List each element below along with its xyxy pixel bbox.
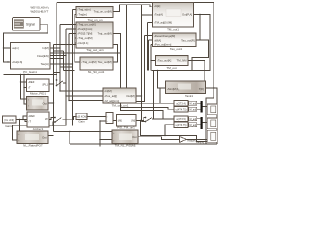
svg-text:TM_out1: TM_out1 xyxy=(167,28,179,32)
svg-text:›: › xyxy=(18,138,19,142)
svg-text:Rad[M]: Rad[M] xyxy=(196,141,204,144)
svg-text:TM_out: TM_out xyxy=(166,66,176,70)
svg-text:Traj_un_un[M]: Traj_un_un[M] xyxy=(94,10,112,14)
svg-text:Tau_out1: Tau_out1 xyxy=(170,47,183,51)
svg-text:Traj_un_un: Traj_un_un xyxy=(87,18,102,22)
svg-text:Gain: Gain xyxy=(78,120,85,124)
svg-text:Out: Out xyxy=(42,136,47,140)
svg-text:›Pos[1][m/s]: ›Pos[1][m/s] xyxy=(77,27,92,31)
svg-text:M_adj: M_adj xyxy=(190,125,197,127)
svg-text:Tau[A]: Tau[A] xyxy=(41,62,49,66)
svg-text:Rad[M]: Rad[M] xyxy=(188,139,196,142)
svg-text:Out: Out xyxy=(42,101,47,105)
svg-text:M_adj: M_adj xyxy=(190,109,197,111)
svg-text:›: › xyxy=(28,104,29,108)
svg-text:TM_out_un1: TM_out_un1 xyxy=(112,104,129,108)
svg-text:›REF: ›REF xyxy=(28,80,35,84)
svg-text:›: › xyxy=(113,131,114,135)
svg-text:›In[M]: ›In[M] xyxy=(104,89,111,93)
svg-text:Out: Out xyxy=(132,135,137,139)
svg-text:PID_TM_un1: PID_TM_un1 xyxy=(117,126,135,130)
svg-text:›T: ›T xyxy=(28,120,31,124)
svg-text:›Tau_out[K]: ›Tau_out[K] xyxy=(157,59,172,63)
svg-text:›TM_adj[0,0M]: ›TM_adj[0,0M] xyxy=(154,21,172,25)
svg-text:Flow[EN]: Flow[EN] xyxy=(37,54,49,58)
svg-text:Tau_out[R]: Tau_out[R] xyxy=(181,38,195,42)
svg-text:TM_NM: TM_NM xyxy=(177,59,188,63)
svg-text:Amber1: Amber1 xyxy=(33,127,44,131)
svg-text:Out[M]: Out[M] xyxy=(126,94,135,98)
svg-text:Traj_out[M]: Traj_out[M] xyxy=(98,32,112,36)
svg-text:TM_NL_PID[M]: TM_NL_PID[M] xyxy=(115,144,136,147)
svg-text:›Traj_un_un[K]: ›Traj_un_un[K] xyxy=(77,23,96,27)
svg-text:Gain1: Gain1 xyxy=(5,124,13,128)
svg-text:›M_adj[mm]: ›M_adj[mm] xyxy=(104,99,119,103)
svg-text:Out[P,A]: Out[P,A] xyxy=(182,13,192,17)
svg-text:›Pos_adj[]: ›Pos_adj[] xyxy=(104,94,117,98)
svg-text:W: W xyxy=(45,117,48,121)
svg-text:›: › xyxy=(28,98,29,102)
svg-text:›Traj[m]: ›Traj[m] xyxy=(77,13,87,17)
svg-text:›Out[4.1]: ›Out[4.1] xyxy=(77,41,88,45)
svg-text:›Out[LS]: ›Out[LS] xyxy=(12,60,23,64)
svg-text:›[M]: ›[M] xyxy=(118,119,123,122)
svg-text:T[K]: T[K] xyxy=(199,87,204,91)
svg-text:[Cx d=6]: [Cx d=6] xyxy=(5,119,15,122)
svg-text:›REF: ›REF xyxy=(28,114,35,118)
svg-text:›Tau[A]: ›Tau[A] xyxy=(154,13,163,17)
svg-text:WjDGLHBJYT: WjDGLHBJYT xyxy=(31,10,49,14)
svg-text:NL_Sit_out1: NL_Sit_out1 xyxy=(88,70,105,74)
svg-text:M_adj: M_adj xyxy=(190,103,197,105)
svg-text:u[S KOh]: u[S KOh] xyxy=(77,116,87,119)
svg-text:›T: ›T xyxy=(28,86,31,90)
svg-text:›DeseChange[M]: ›DeseChange[M] xyxy=(154,34,175,38)
svg-text:Motor_PID1: Motor_PID1 xyxy=(30,92,46,96)
svg-text:Tank1: Tank1 xyxy=(185,94,193,98)
svg-text:›w[m]: ›w[m] xyxy=(12,46,19,50)
svg-text:In[M]: In[M] xyxy=(42,46,48,50)
svg-text:Tau_out[M]: Tau_out[M] xyxy=(98,60,112,64)
svg-text:›: › xyxy=(113,139,114,143)
svg-text:›PID[5.7][M]: ›PID[5.7][M] xyxy=(77,32,92,36)
svg-text:Traj_out_un1: Traj_out_un1 xyxy=(86,48,104,52)
svg-text:PC_Gain1: PC_Gain1 xyxy=(23,70,37,74)
svg-text:›Traj_out[M]: ›Traj_out[M] xyxy=(77,36,92,40)
svg-text:M_adj: M_adj xyxy=(190,119,197,121)
svg-text:›Pos_adj[mm]: ›Pos_adj[mm] xyxy=(154,43,171,47)
svg-text:u(2T3.5): u(2T3.5) xyxy=(176,118,186,121)
svg-text:[M]: [M] xyxy=(132,119,136,122)
svg-text:›In[k]: ›In[k] xyxy=(154,4,160,8)
svg-text:›Traj_out[M]: ›Traj_out[M] xyxy=(81,60,96,64)
svg-text:u(2T3.4): u(2T3.4) xyxy=(176,103,186,106)
svg-text:›Traj_w[m]: ›Traj_w[m] xyxy=(77,8,90,12)
svg-text:u(4T3.75): u(4T3.75) xyxy=(176,124,187,127)
svg-text:[PL]: [PL] xyxy=(43,82,48,86)
svg-text:NL_RatedPOT: NL_RatedPOT xyxy=(23,144,43,147)
svg-text:Signal: Signal xyxy=(26,22,35,26)
svg-text:u(4T4.75): u(4T4.75) xyxy=(176,109,187,112)
svg-text:›Sim[M,K]: ›Sim[M,K] xyxy=(167,87,179,91)
svg-text:›: › xyxy=(18,132,19,136)
